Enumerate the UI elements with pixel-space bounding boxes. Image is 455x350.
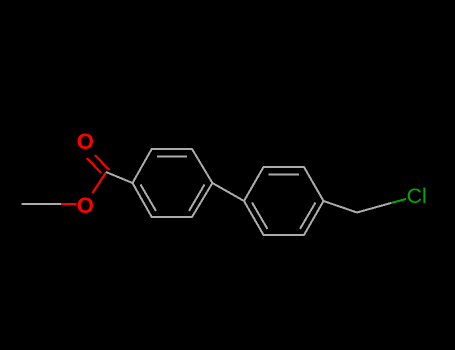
- benzene ring 1: [133, 149, 213, 217]
- ring2 inner double bond lower-left: [252, 203, 268, 230]
- svg-text:Cl: Cl: [407, 185, 427, 208]
- carbonyl double bond C=O line 2: [95, 155, 109, 170]
- ring1 inner double bond top: [157, 156, 187, 158]
- svg-text:O: O: [77, 193, 94, 218]
- bond C(carbonyl)-ring1 ipso: [106, 172, 133, 183]
- ring1 inner double bond lower-right: [189, 185, 205, 212]
- biphenyl link bond ring1-ring2: [212, 183, 244, 201]
- ethyl CH2-O bond (red half): [61, 203, 77, 205]
- ring2 inner double bond top: [269, 174, 300, 176]
- bond O-C(carbonyl): [93, 173, 107, 194]
- bond ring2-CH2: [324, 201, 358, 213]
- carbonyl double bond C=O line 1: [87, 158, 101, 173]
- ring2 inner double bond lower-right: [300, 203, 316, 230]
- bond CH2-Cl gray half: [357, 203, 391, 213]
- svg-text:O: O: [77, 129, 94, 154]
- ring1 inner double bond lower-left: [141, 185, 157, 212]
- ethyl CH3-CH2 bond: [22, 203, 62, 205]
- bond CH2-Cl green half: [391, 199, 406, 203]
- benzene ring 2: [244, 167, 324, 235]
